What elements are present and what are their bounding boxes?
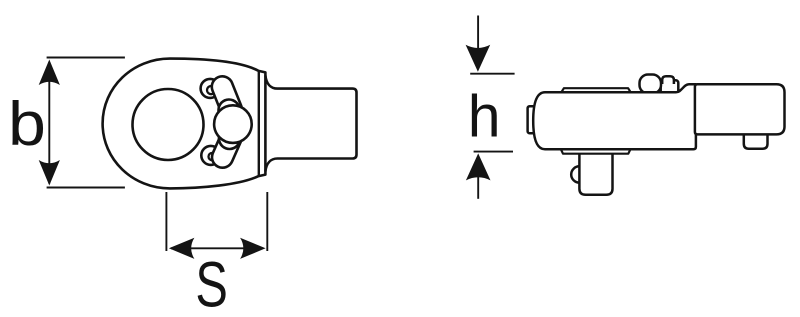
svg-text:S: S xyxy=(195,250,227,317)
svg-text:b: b xyxy=(8,89,46,158)
svg-text:h: h xyxy=(468,83,501,149)
